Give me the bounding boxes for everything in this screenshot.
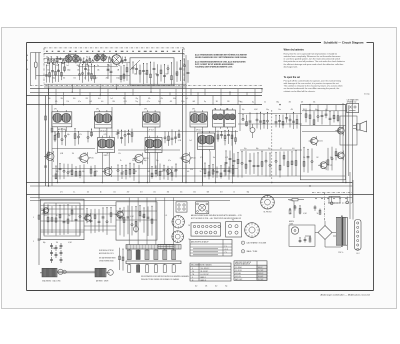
svg-text:U: U — [192, 268, 193, 270]
svg-text:When dry batteries: When dry batteries — [284, 48, 305, 51]
dial pulley 1 circles — [58, 269, 66, 274]
transistor Q1 — [78, 152, 94, 164]
AF wire 3 — [240, 149, 302, 151]
AF box inner parts — [303, 147, 337, 173]
svg-text:220p: 220p — [52, 78, 56, 80]
top horizontal wire 2 — [44, 61, 130, 63]
svg-text:68p: 68p — [77, 65, 80, 67]
left chain labels — [52, 248, 62, 250]
svg-text:4,7n: 4,7n — [87, 70, 90, 72]
svg-text:0,1: 0,1 — [108, 171, 110, 173]
speaker terminal box — [347, 103, 359, 112]
svg-text:15k: 15k — [63, 78, 66, 80]
bus junction dots — [48, 88, 311, 105]
svg-text:100k: 100k — [330, 157, 333, 159]
transistor Q3 — [180, 152, 196, 164]
wafer box S2 — [196, 202, 209, 214]
svg-text:460 KC: 460 KC — [258, 267, 263, 269]
svg-text:47k: 47k — [205, 286, 208, 288]
tube labels row — [46, 50, 180, 53]
svg-text:10,7 MC: 10,7 MC — [258, 279, 263, 281]
mains switch — [328, 197, 352, 205]
AF box inner labels — [303, 157, 333, 159]
svg-text:12k: 12k — [118, 153, 121, 155]
svg-text:25V: 25V — [95, 171, 98, 173]
left rail parts — [44, 116, 53, 167]
alignment notes — [191, 214, 242, 220]
svg-text:4,5 V: 4,5 V — [225, 249, 229, 251]
svg-text:68p: 68p — [43, 242, 46, 244]
svg-text:12k: 12k — [97, 70, 100, 72]
svg-text:4,7n: 4,7n — [78, 101, 81, 103]
svg-text:47k: 47k — [201, 140, 204, 142]
svg-text:5k: 5k — [91, 134, 93, 136]
svg-text:2k2: 2k2 — [195, 286, 197, 288]
svg-text:15k: 15k — [303, 157, 306, 159]
svg-text:switched over completely. When: switched over completely. Whenever the s… — [284, 55, 341, 58]
svg-text:50µ: 50µ — [266, 109, 269, 111]
mains dots — [315, 198, 346, 199]
wafer disc S6 — [244, 222, 259, 237]
mini table — [158, 244, 174, 248]
svg-text:12k: 12k — [57, 70, 60, 72]
svg-text:2k2: 2k2 — [213, 171, 216, 173]
AF wire 4 — [302, 131, 343, 133]
oscillator wire 2 — [41, 231, 85, 233]
svg-text:8p: 8p — [252, 102, 254, 104]
svg-text:68p: 68p — [247, 192, 250, 194]
mixer components — [119, 205, 153, 237]
svg-text:3n3: 3n3 — [158, 101, 161, 103]
svg-text:98,6 MC: 98,6 MC — [258, 276, 263, 278]
osc horizontal wire b — [41, 213, 117, 215]
svg-text:0,1: 0,1 — [73, 192, 75, 194]
svg-text:10,7 MC: 10,7 MC — [258, 270, 263, 272]
oscillator wire 1 — [41, 220, 85, 222]
tuner components right — [176, 59, 189, 83]
wafer disc S5 — [260, 195, 274, 209]
svg-text:1n5: 1n5 — [111, 98, 114, 100]
svg-text:50µ: 50µ — [155, 140, 158, 142]
svg-text:12k: 12k — [72, 153, 75, 155]
transistor Q1b — [102, 166, 112, 177]
instructions paragraph 1 — [284, 48, 345, 68]
AF components A — [242, 112, 298, 130]
svg-text:10n: 10n — [315, 109, 318, 111]
svg-text:ZF3: ZF3 — [144, 109, 147, 111]
svg-text:1n5: 1n5 — [240, 102, 243, 104]
dial pulley 2 — [95, 268, 106, 277]
connector strip — [355, 220, 362, 251]
svg-text:6k8: 6k8 — [193, 101, 196, 103]
antenna drop wire — [30, 57, 32, 86]
svg-text:ZF 10,7: ZF 10,7 — [196, 129, 201, 131]
svg-text:220p: 220p — [116, 78, 120, 80]
top value labels 4 — [46, 65, 120, 67]
meter box — [289, 225, 315, 246]
top extra labels — [46, 57, 119, 59]
power wires — [288, 172, 353, 250]
svg-text:220p: 220p — [52, 248, 55, 250]
transistor Q0 — [44, 151, 54, 162]
svg-text:1n5: 1n5 — [189, 140, 192, 142]
svg-text:ZF / IF FM: ZF / IF FM — [235, 270, 242, 272]
mid bottom bus 2 — [30, 185, 352, 187]
power labels — [290, 213, 318, 215]
left rail 1 — [45, 96, 47, 187]
svg-text:68p: 68p — [242, 109, 245, 111]
svg-text:6,0–18,1 MC: 6,0–18,1 MC — [201, 274, 209, 276]
bus label row 3 — [48, 98, 188, 100]
measurement notes text — [195, 53, 248, 68]
top value labels 3 — [134, 74, 177, 76]
svg-text:5k: 5k — [264, 102, 266, 104]
mixer tube V1 — [112, 53, 122, 66]
transistor Q8 — [41, 206, 49, 215]
IF value labels 7 — [190, 169, 226, 171]
table B — [190, 263, 231, 282]
svg-text:47k: 47k — [291, 109, 294, 111]
dial pulley 1 — [42, 268, 57, 277]
svg-text:220p: 220p — [174, 171, 177, 173]
dial pulley 2 circle — [108, 270, 114, 276]
svg-text:68p: 68p — [276, 102, 279, 104]
svg-text:Every time the set is operated: Every time the set is operated from dry … — [284, 52, 338, 55]
svg-text:0,25: 0,25 — [124, 101, 127, 103]
IF wire 3 — [118, 149, 180, 151]
IF wire 4 — [52, 168, 238, 170]
svg-text:330: 330 — [112, 101, 115, 103]
frame border — [27, 43, 374, 291]
svg-text:WAHL / TUNE: WAHL / TUNE — [247, 250, 259, 253]
top value labels 2 — [52, 78, 120, 80]
left notes — [99, 249, 115, 262]
speaker terminal label — [347, 98, 359, 103]
bus stack line 2 — [44, 86, 186, 88]
right rails — [343, 100, 352, 195]
svg-text:70p: 70p — [68, 215, 71, 217]
IF components row A — [54, 128, 236, 146]
svg-text:OSZ. FM: OSZ. FM — [235, 276, 241, 278]
svg-text:12k: 12k — [56, 242, 59, 244]
left rail 3 — [51, 105, 53, 186]
svg-text:10n: 10n — [180, 192, 183, 194]
AF components C — [305, 109, 339, 126]
svg-text:10n: 10n — [47, 70, 50, 72]
transistor Q10 — [115, 210, 123, 219]
svg-text:70p: 70p — [136, 98, 139, 100]
svg-text:Änderungen vorbehalten — Mod: Änderungen vorbehalten — Modifications r… — [321, 293, 371, 296]
wafer disc S4 — [172, 231, 184, 243]
svg-text:25V: 25V — [106, 78, 109, 80]
tuner components left — [45, 62, 128, 83]
svg-text:2: 2 — [243, 251, 244, 253]
top extra parts — [47, 56, 126, 65]
svg-text:1k: 1k — [233, 192, 235, 194]
top horizontal wire 3 — [44, 75, 130, 77]
IF wire 1 — [52, 131, 238, 133]
svg-text:500: 500 — [201, 169, 204, 171]
svg-text:0,25: 0,25 — [225, 157, 228, 159]
FM tuner box — [130, 58, 174, 85]
svg-text:68p: 68p — [82, 171, 85, 173]
svg-text:TB: TB — [192, 274, 194, 276]
svg-text:1n5: 1n5 — [187, 171, 190, 173]
IF can T5 — [213, 108, 224, 129]
svg-text:discharged unit.: discharged unit. — [284, 65, 299, 68]
svg-text:47k: 47k — [55, 101, 58, 103]
wafer labels — [165, 215, 190, 241]
push-button text — [141, 275, 189, 281]
volume pot — [250, 124, 255, 138]
wafer disc S3 — [172, 215, 185, 228]
svg-text:First pull off the control kno: First pull off the control knobs for ope… — [284, 79, 341, 82]
svg-text:50µ: 50µ — [116, 57, 119, 59]
svg-text:3n3: 3n3 — [161, 171, 164, 173]
dropper wire c — [185, 55, 187, 183]
dial cord upper line — [44, 270, 106, 272]
svg-text:500: 500 — [144, 74, 147, 76]
svg-text:0,25: 0,25 — [44, 215, 47, 217]
svg-text:3n3: 3n3 — [46, 65, 49, 67]
svg-text:GEGEN CHASSIS BEI 220 V NE: GEGEN CHASSIS BEI 220 V NETZSPANNUNG OHN… — [195, 56, 248, 59]
svg-text:47k: 47k — [79, 134, 82, 136]
transistor Q7 — [335, 151, 344, 161]
AF value labels — [242, 109, 317, 111]
svg-text:100k: 100k — [83, 153, 86, 155]
IF value labels 4 — [200, 157, 228, 159]
bandfilter BF2 — [94, 54, 106, 62]
mid bottom bus 4 — [30, 197, 352, 199]
bank left parts — [119, 248, 124, 271]
IF can T9 — [198, 131, 215, 151]
svg-text:To open the set: To open the set — [284, 76, 301, 79]
mid bus dots — [48, 182, 347, 187]
svg-text:0,25: 0,25 — [104, 134, 107, 136]
svg-text:8p: 8p — [204, 101, 206, 103]
svg-text:15k: 15k — [132, 160, 135, 162]
svg-text:25V: 25V — [86, 98, 89, 100]
svg-text:7 V: 7 V — [225, 252, 227, 254]
svg-text:100k: 100k — [190, 169, 193, 171]
IF wire 2 — [52, 148, 95, 150]
mid bottom bus 3 — [26, 194, 374, 196]
svg-text:70p: 70p — [56, 57, 59, 59]
IF can T3 — [143, 110, 161, 131]
svg-text:8p: 8p — [107, 153, 109, 155]
osc inner box — [44, 203, 80, 236]
antenna terminal labels — [27, 54, 28, 71]
svg-text:68p: 68p — [67, 134, 70, 136]
svg-text:1 V: 1 V — [225, 246, 227, 248]
svg-text:12k: 12k — [134, 74, 137, 76]
svg-text:1: 1 — [243, 243, 244, 245]
oscillator labels — [43, 242, 72, 244]
svg-text:3n3: 3n3 — [140, 192, 143, 194]
svg-text:68p: 68p — [256, 148, 259, 150]
main grid wire — [44, 52, 184, 54]
svg-text:ZF 10,7: ZF 10,7 — [149, 129, 154, 131]
svg-text:68p: 68p — [144, 160, 147, 162]
bus line 3 — [26, 95, 262, 97]
screen dash-dot right — [183, 48, 185, 84]
svg-text:1n5: 1n5 — [292, 148, 295, 150]
oscillator box — [41, 199, 85, 240]
ferrite antenna — [31, 53, 45, 80]
svg-text:1n5: 1n5 — [101, 101, 104, 103]
svg-text:70p: 70p — [135, 101, 138, 103]
svg-text:ZF2: ZF2 — [96, 109, 99, 111]
svg-text:1k: 1k — [290, 213, 292, 215]
transistor Q2 — [133, 153, 149, 165]
legend item 1 — [241, 241, 267, 245]
svg-text:220p: 220p — [181, 101, 185, 103]
mixer wire 2 — [116, 210, 157, 212]
svg-text:10n: 10n — [213, 157, 216, 159]
svg-text:6k8: 6k8 — [89, 101, 92, 103]
IF can T7 — [98, 136, 115, 157]
svg-text:4,7n: 4,7n — [168, 160, 171, 162]
svg-text:are located underneath the rea: are located underneath the rear. After r… — [284, 87, 340, 90]
svg-text:25V: 25V — [127, 192, 130, 194]
svg-text:1n5: 1n5 — [59, 248, 62, 250]
AF wire 1 — [238, 113, 302, 115]
svg-text:500: 500 — [73, 98, 76, 100]
instructions paragraph 2 — [284, 76, 371, 95]
mixer wire — [116, 219, 157, 221]
dropper wire b — [182, 49, 184, 183]
can top labels — [54, 108, 229, 111]
svg-text:1n5: 1n5 — [186, 98, 189, 100]
left rail 2 — [48, 89, 50, 186]
svg-text:3n3: 3n3 — [98, 98, 101, 100]
mixer circle — [133, 226, 138, 231]
transistor Q4 — [309, 136, 323, 146]
legend item 2 — [241, 250, 258, 254]
push-button switch bank — [126, 198, 181, 273]
under-table labels — [195, 286, 228, 288]
psu extra parts — [314, 205, 321, 214]
svg-text:50µ: 50µ — [244, 148, 247, 150]
IF can T8 — [145, 136, 162, 155]
osc horizontal wire c — [41, 229, 117, 231]
svg-text:100k: 100k — [173, 98, 176, 100]
alignment box — [191, 223, 221, 236]
svg-text:15k: 15k — [67, 101, 70, 103]
table C — [234, 261, 267, 281]
svg-text:47k: 47k — [148, 98, 151, 100]
svg-text:ZF4: ZF4 — [192, 109, 195, 111]
svg-text:10n: 10n — [278, 109, 281, 111]
svg-text:B: B — [27, 69, 28, 71]
bus line 4 — [26, 104, 262, 106]
svg-text:70p: 70p — [121, 171, 124, 173]
oscillator inner labels — [44, 215, 71, 217]
dial cord shaft — [40, 272, 110, 274]
oscillator components — [43, 203, 82, 236]
svg-text:12k: 12k — [301, 102, 304, 104]
svg-text:500: 500 — [193, 192, 196, 194]
svg-text:68p: 68p — [107, 70, 110, 72]
volume pot dashed link — [271, 110, 273, 180]
tone pot — [167, 169, 172, 174]
loudspeaker LS1 — [353, 121, 367, 132]
bridge rectifier GR1 — [315, 221, 336, 244]
svg-text:50µ: 50µ — [268, 148, 271, 150]
svg-text:330: 330 — [167, 192, 170, 194]
mains dash-dot — [312, 192, 352, 194]
svg-text:The cabinet is released to the: The cabinet is released to the chassis b… — [284, 85, 343, 88]
mid bottom bus 1 — [26, 182, 352, 184]
svg-text:47k: 47k — [155, 74, 158, 76]
wafer box S1 — [176, 202, 187, 212]
svg-text:12k: 12k — [87, 65, 90, 67]
psu resistors — [289, 205, 301, 214]
IF value labels 6 — [60, 153, 121, 155]
svg-text:in use these guided system, tu: in use these guided system, turn the mai… — [284, 58, 340, 61]
svg-text:with damage of the rear socket: with damage of the rear socket, it is pr… — [284, 82, 340, 85]
dropper wire a — [38, 53, 40, 200]
mixer inner labels — [119, 216, 146, 218]
IF wire 5 — [52, 175, 345, 177]
svg-text:8p: 8p — [97, 65, 99, 67]
mixer box — [116, 202, 157, 240]
svg-text:1k: 1k — [84, 78, 86, 80]
svg-text:330: 330 — [227, 101, 230, 103]
svg-text:the efficient drainage and ope: the efficient drainage and open mode che… — [284, 63, 344, 66]
left edge rail — [38, 199, 40, 265]
bus line 4 right segment — [302, 104, 347, 106]
bus label row 2 — [240, 102, 316, 104]
svg-text:2k2: 2k2 — [95, 78, 98, 80]
screen dash-dot top — [44, 47, 184, 49]
AF value labels 2 — [244, 148, 295, 150]
svg-text:4,7n: 4,7n — [200, 157, 203, 159]
psu resistors 2 — [299, 236, 311, 243]
mid bottom bus 5 — [30, 200, 230, 202]
FM tuner diagonal — [130, 60, 140, 70]
svg-text:TV1: TV1 — [232, 220, 235, 222]
speaker frame box — [340, 116, 357, 145]
svg-text:47k: 47k — [170, 101, 173, 103]
mains entry box — [329, 197, 340, 204]
IF can T1 — [52, 110, 72, 131]
svg-text:0,1: 0,1 — [280, 148, 282, 150]
svg-text:4,7n: 4,7n — [76, 57, 79, 59]
top value labels 1 — [47, 70, 120, 72]
svg-text:5k: 5k — [317, 213, 319, 215]
alignment box 2 — [226, 220, 242, 237]
svg-text:6k8: 6k8 — [207, 192, 210, 194]
svg-text:that particular on and off pos: that particular on and off positions. Th… — [284, 60, 345, 63]
svg-text:15k: 15k — [123, 98, 126, 100]
left chain components — [50, 243, 63, 263]
IF can T4 — [190, 110, 208, 131]
bus dash-dot — [30, 85, 262, 87]
svg-text:2k2: 2k2 — [215, 286, 217, 288]
svg-text:4,7n: 4,7n — [128, 134, 131, 136]
osc horizontal wire a — [41, 205, 117, 207]
svg-text:70p: 70p — [225, 286, 228, 288]
svg-text:15k: 15k — [165, 74, 168, 76]
screen dash-dot left — [43, 48, 45, 84]
IF value labels 1 — [55, 134, 131, 136]
AF inner wire — [300, 124, 345, 126]
svg-text:TB: TB — [188, 239, 190, 241]
svg-text:330: 330 — [61, 98, 64, 100]
svg-text:500: 500 — [56, 171, 59, 173]
table A — [190, 240, 232, 257]
